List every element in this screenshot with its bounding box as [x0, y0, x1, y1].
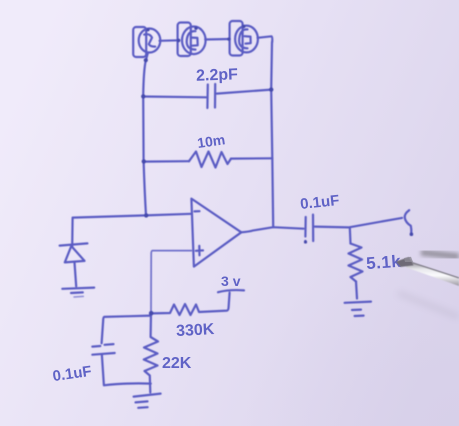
capacitor C1 2.2pF plates — [206, 85, 209, 109]
wire bottom cap to ground rail — [102, 355, 151, 385]
diode D1 cathode bar — [60, 243, 88, 245]
wire diode to ground — [75, 263, 77, 287]
squiggle wire end — [405, 210, 412, 233]
op-amp U1 — [191, 199, 241, 267]
wire 5.1k to ground — [356, 282, 357, 299]
ground diode — [62, 288, 94, 293]
stylus shaft — [405, 260, 459, 286]
wire to bottom cap — [102, 316, 151, 344]
stylus blurred upper part — [421, 253, 459, 257]
wire Q3 to right rail — [258, 36, 273, 42]
wire right rail — [271, 42, 273, 227]
svg-text:2.2pF: 2.2pF — [196, 66, 239, 84]
wire cap branch right — [217, 90, 271, 94]
transistor Q3 — [230, 21, 258, 56]
op-amp minus sign — [195, 210, 200, 212]
transistor Q1 — [133, 27, 160, 57]
capacitor C3 0.1uF plates — [92, 344, 113, 347]
wire left rail — [143, 53, 148, 216]
resistor R1 10m zigzag — [189, 152, 231, 168]
svg-text:3v: 3v — [221, 273, 245, 289]
transistor Q2 — [178, 23, 206, 57]
wire Q2-Q3 — [205, 38, 230, 41]
wire resistor branch right — [231, 157, 272, 160]
capacitor C2 0.1uF plates — [304, 217, 307, 242]
wire Q1-Q2 — [160, 39, 179, 42]
wire output — [241, 227, 303, 232]
3v supply bar — [218, 290, 244, 292]
svg-text:22K: 22K — [162, 355, 192, 372]
resistor R4 22K — [144, 313, 158, 392]
diode D1 triangle — [65, 246, 85, 262]
wire non-inverting input — [151, 251, 191, 313]
wire to 5.1k — [349, 228, 352, 244]
wire after C2 — [315, 218, 402, 228]
stylus shadow — [398, 293, 459, 317]
svg-text:5.1k: 5.1k — [366, 252, 402, 273]
op-amp plus sign — [196, 246, 203, 256]
stylus tip — [396, 257, 414, 267]
svg-text:330K: 330K — [176, 321, 216, 340]
ground 22K — [134, 394, 161, 408]
wire cap branch left — [143, 95, 206, 98]
wire resistor branch left — [144, 160, 189, 163]
resistor R3 330K — [152, 293, 230, 315]
resistor R2 5.1k zigzag — [349, 244, 363, 282]
wire inverting input — [72, 214, 191, 247]
ground 5.1k — [345, 302, 371, 316]
